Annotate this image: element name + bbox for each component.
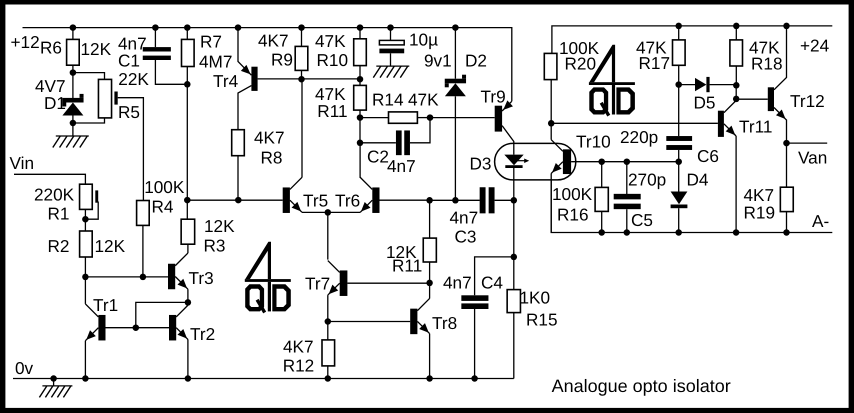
node C6/D4/Tr10 base junction bbox=[675, 158, 682, 165]
wire Tr8 base wire bbox=[328, 321, 410, 323]
label R1 bbox=[48, 203, 70, 223]
diode D2 zener 9v1 bbox=[445, 75, 466, 201]
svg-text:R7: R7 bbox=[200, 32, 222, 52]
svg-text:100K: 100K bbox=[552, 184, 593, 204]
label D1 bbox=[44, 93, 66, 113]
label Tr4 bbox=[213, 71, 239, 91]
label Tr3 bbox=[189, 268, 214, 288]
wire 10u bottom lead bbox=[390, 53, 392, 66]
label 4M7 value of R7 bbox=[199, 52, 232, 72]
node Tr4 base/R9/Tr5 collector junction bbox=[298, 76, 305, 83]
wire Vin terminal bbox=[14, 174, 85, 184]
wire C5 bottom lead bbox=[626, 209, 628, 232]
svg-text:4K7: 4K7 bbox=[283, 336, 314, 356]
label D4 bbox=[687, 170, 709, 190]
node Tr11 collector/Tr12 base junction bbox=[733, 96, 740, 103]
ground below 0v bus bbox=[39, 386, 72, 398]
node junction on +24 bus bbox=[733, 23, 740, 30]
svg-text:C3: C3 bbox=[455, 227, 477, 247]
svg-text:Tr11: Tr11 bbox=[739, 117, 772, 137]
label 4n7 value of C3 bbox=[450, 208, 479, 228]
label 0v terminal bbox=[15, 358, 34, 378]
resistor R16 bbox=[595, 187, 608, 211]
capacitor C6 220p bbox=[666, 136, 692, 150]
wire +12 supply bus bbox=[23, 28, 512, 102]
label R6 bbox=[40, 38, 62, 58]
wire C4 branch bbox=[475, 200, 514, 295]
label R3 bbox=[204, 236, 226, 256]
capacitor 10u electrolytic bbox=[379, 40, 404, 53]
wire base link to Tr2 collector bbox=[136, 302, 188, 327]
wire Tr1-Tr2 base link bbox=[106, 327, 170, 329]
label 220p value of C6 bbox=[620, 127, 658, 147]
svg-text:C5: C5 bbox=[631, 210, 653, 230]
svg-text:4n7: 4n7 bbox=[387, 156, 416, 176]
svg-text:R12: R12 bbox=[283, 356, 315, 376]
node junction on A- bus bbox=[598, 229, 605, 236]
label R17 bbox=[639, 53, 671, 73]
label R4 bbox=[152, 197, 174, 217]
svg-text:R18: R18 bbox=[751, 54, 783, 74]
capacitor C4 4n7 bbox=[461, 295, 488, 309]
wire R4 bottom lead bbox=[142, 225, 144, 277]
wire D2 cathode lead bbox=[454, 28, 456, 79]
label 12K value of R2 bbox=[95, 236, 126, 256]
svg-text:R9: R9 bbox=[271, 50, 293, 70]
wire R18 bottom lead bbox=[735, 66, 737, 85]
wire D1 anode to ground bbox=[72, 123, 74, 136]
label Tr11 bbox=[739, 117, 772, 137]
wire R9 top lead bbox=[301, 28, 303, 47]
svg-text:R5: R5 bbox=[118, 102, 140, 122]
wire R14 to Tr9 base node bbox=[417, 117, 430, 119]
label Vin terminal bbox=[10, 153, 35, 173]
svg-text:R3: R3 bbox=[204, 236, 226, 256]
label 47K value of R10 bbox=[315, 31, 346, 51]
label Tr10 bbox=[576, 132, 611, 152]
node junction on +12 bus bbox=[357, 24, 364, 31]
wire Tr7 base wire bbox=[347, 282, 429, 284]
node junction on 0v bus bbox=[325, 375, 332, 382]
svg-text:D2: D2 bbox=[465, 51, 487, 71]
node junction on A- bus bbox=[733, 229, 740, 236]
node junction on +12 bus bbox=[452, 24, 459, 31]
label 4V7 value of D1 bbox=[35, 76, 66, 96]
svg-text:Tr6: Tr6 bbox=[335, 191, 360, 211]
transistor Tr4 PNP bbox=[238, 65, 258, 130]
svg-text:4K7: 4K7 bbox=[258, 31, 289, 51]
wire C5 top lead bbox=[626, 162, 628, 194]
label 9v1 value bbox=[424, 51, 452, 71]
svg-text:C6: C6 bbox=[697, 146, 719, 166]
label Tr6 bbox=[335, 191, 360, 211]
node R8/Tr5 base junction bbox=[235, 197, 242, 204]
node junction on 0v bus bbox=[185, 375, 192, 382]
node Tr6 base/R11 junction bbox=[426, 197, 433, 204]
svg-text:0v: 0v bbox=[15, 358, 34, 378]
node junction on +24 bus bbox=[675, 23, 682, 30]
node junction on A- bus bbox=[675, 229, 682, 236]
wire R18 top lead bbox=[735, 26, 737, 40]
label R12 bbox=[283, 356, 315, 376]
svg-text:Tr2: Tr2 bbox=[190, 324, 215, 344]
transistor Tr1 NPN bbox=[85, 304, 105, 379]
svg-text:Tr1: Tr1 bbox=[93, 295, 118, 315]
wire C2 left lead bbox=[360, 118, 396, 143]
svg-text:100K: 100K bbox=[144, 177, 185, 197]
label R16 bbox=[557, 205, 589, 225]
wire R12 top lead bbox=[327, 322, 329, 340]
label 4n7 value of C2 bbox=[387, 156, 416, 176]
logo 4QD left bbox=[245, 242, 291, 313]
svg-text:Tr8: Tr8 bbox=[432, 313, 457, 333]
label 22K value of R5 bbox=[118, 69, 149, 89]
label C1 bbox=[118, 51, 140, 71]
wire R17 node down to C6 bbox=[678, 85, 680, 136]
label 4K7 value of R12 bbox=[283, 336, 314, 356]
svg-text:Tr3: Tr3 bbox=[189, 268, 214, 288]
svg-text:220p: 220p bbox=[620, 127, 658, 147]
capacitor C5 270p bbox=[614, 194, 641, 209]
wire D5 anode lead bbox=[679, 84, 695, 86]
label 1K0 value of R15 bbox=[520, 287, 551, 307]
label Tr8 bbox=[432, 313, 457, 333]
wire R16 top lead bbox=[601, 162, 603, 188]
wire R11 node to R14 bbox=[360, 117, 389, 119]
label 100K value of R16 bbox=[552, 184, 593, 204]
wire +24 supply bus bbox=[552, 26, 832, 54]
wire 10u top lead bbox=[390, 28, 392, 41]
label R2 bbox=[48, 236, 70, 256]
svg-text:R10: R10 bbox=[317, 50, 349, 70]
capacitor C2 4n7 bbox=[396, 130, 410, 155]
wire Tr4 base to R9/R10 bbox=[258, 78, 360, 80]
label 47K value of R11 bbox=[315, 84, 346, 104]
wire R15 top lead bbox=[513, 257, 515, 290]
node Tr7 emitter/R12 junction bbox=[325, 318, 332, 325]
transistor Tr6 NPN mirrored bbox=[328, 143, 380, 213]
svg-text:C4: C4 bbox=[481, 272, 503, 292]
svg-text:R1: R1 bbox=[48, 203, 70, 223]
svg-text:R14: R14 bbox=[372, 90, 404, 110]
resistor R11 lower 12K bbox=[423, 238, 436, 262]
label C4 bbox=[481, 272, 503, 292]
svg-text:R20: R20 bbox=[565, 54, 597, 74]
label D2 bbox=[465, 51, 487, 71]
wire R8 bottom lead bbox=[237, 156, 239, 201]
label 4K7 value of R9 bbox=[258, 31, 289, 51]
node R4 bottom junction bbox=[140, 274, 147, 281]
node junction on 0v bus bbox=[471, 375, 478, 382]
label 100K value of R4 bbox=[144, 177, 185, 197]
label C2 bbox=[367, 147, 389, 167]
svg-text:+12: +12 bbox=[11, 32, 40, 52]
label 47K value of R18 bbox=[749, 37, 780, 57]
label 270p value of C5 bbox=[628, 170, 666, 190]
label R5 bbox=[118, 102, 140, 122]
node R14/C2/Tr9 base junction bbox=[427, 114, 434, 121]
wire R10 top lead bbox=[359, 28, 361, 39]
phototransistor Tr10 inside opto bbox=[551, 123, 571, 232]
svg-text:10µ: 10µ bbox=[409, 30, 438, 50]
label R11 upper bbox=[317, 101, 347, 121]
label 12K value of R3 bbox=[204, 216, 235, 236]
wire R6 bottom lead bbox=[72, 65, 74, 72]
node Tr2 collector/Tr3 emitter junction bbox=[185, 299, 192, 306]
label 4n7 value of C1 bbox=[118, 34, 147, 54]
label R18 bbox=[751, 54, 783, 74]
wire R11 lower bottom lead bbox=[429, 262, 431, 283]
wire base rail to Tr3 bbox=[85, 276, 168, 278]
wire C4 bottom lead bbox=[474, 309, 476, 379]
wire R10 bottom lead bbox=[359, 66, 361, 86]
transistor Tr7 NPN mirrored bbox=[328, 212, 348, 321]
wire C3 to LED node bbox=[495, 199, 514, 201]
label R7 bbox=[200, 32, 222, 52]
wire R11 lower top lead bbox=[429, 200, 431, 238]
node junction on +12 bus bbox=[184, 24, 191, 31]
resistor R2 bbox=[80, 231, 93, 257]
wire C1 bottom to node bbox=[155, 60, 187, 84]
node R11/R14/C2 junction bbox=[357, 114, 364, 121]
svg-text:Analogue opto isolator: Analogue opto isolator bbox=[552, 376, 731, 396]
node junction on 0v bus bbox=[426, 375, 433, 382]
wire C1 top lead bbox=[154, 28, 156, 47]
label Tr9 bbox=[481, 87, 506, 107]
svg-text:C1: C1 bbox=[118, 51, 140, 71]
svg-text:C2: C2 bbox=[367, 147, 389, 167]
resistor R3 bbox=[181, 219, 195, 244]
diode D1 zener 4V7 bbox=[62, 73, 83, 123]
node R11/Tr7 base/Tr8 collector junction bbox=[426, 280, 433, 287]
node D1 anode junction bbox=[70, 120, 77, 127]
wire R2 bottom lead bbox=[84, 257, 86, 277]
label R10 bbox=[317, 50, 349, 70]
resistor R11 47K bbox=[354, 85, 367, 110]
label R8 bbox=[261, 148, 283, 168]
label D5 bbox=[694, 92, 716, 112]
wire C2 right lead bbox=[410, 118, 430, 143]
wire R7 node down to lower node bbox=[186, 84, 188, 200]
resistor R9 bbox=[295, 46, 308, 70]
potentiometer R1 220K bbox=[80, 184, 99, 209]
wire R17 top lead bbox=[678, 26, 680, 40]
resistor R8 bbox=[232, 130, 245, 156]
diode D4 bbox=[671, 192, 688, 209]
wire R6 top lead bbox=[72, 28, 74, 40]
transistor Tr12 NPN bbox=[768, 26, 787, 143]
svg-text:R2: R2 bbox=[48, 236, 70, 256]
wire Tr12 base wire bbox=[736, 98, 768, 100]
label Tr7 bbox=[305, 274, 330, 294]
node R1/R2 junction bbox=[82, 216, 89, 223]
svg-text:R4: R4 bbox=[152, 197, 174, 217]
wire Van terminal bbox=[787, 142, 828, 144]
capacitor C3 4n7 bbox=[480, 187, 495, 213]
resistor R20 bbox=[544, 53, 557, 79]
diode D5 bbox=[695, 77, 710, 92]
label 47K value of R17 bbox=[636, 37, 667, 57]
node junction on A- bus bbox=[624, 229, 631, 236]
label 47K value of R14 bbox=[408, 90, 439, 110]
opto isolator package outline bbox=[495, 143, 576, 180]
svg-text:R11: R11 bbox=[317, 101, 347, 121]
node Tr12 emitter/Van junction bbox=[783, 140, 790, 147]
resistor R17 bbox=[673, 40, 686, 65]
wire A- bus bbox=[551, 180, 832, 233]
node junction on 0v bus bbox=[82, 375, 89, 382]
transistor Tr8 NPN bbox=[410, 298, 429, 378]
wire 0v bus bbox=[13, 378, 514, 380]
svg-text:47K: 47K bbox=[315, 31, 346, 51]
node junction on +12 bus bbox=[387, 24, 394, 31]
wire C6 bottom lead bbox=[678, 150, 680, 162]
capacitor C1 4n7 bbox=[143, 47, 171, 60]
wire R7 top lead bbox=[186, 28, 188, 40]
label R11 lower bbox=[392, 256, 422, 276]
transistor Tr3 NPN bbox=[168, 253, 188, 302]
svg-text:R8: R8 bbox=[261, 148, 283, 168]
resistor R12 bbox=[322, 340, 335, 366]
wire R19 bottom lead bbox=[786, 212, 788, 233]
svg-text:+24: +24 bbox=[800, 36, 830, 56]
label C5 bbox=[631, 210, 653, 230]
label C6 bbox=[697, 146, 719, 166]
label R19 bbox=[744, 203, 776, 223]
label R20 bbox=[565, 54, 597, 74]
label Tr2 bbox=[190, 324, 215, 344]
svg-text:R16: R16 bbox=[557, 205, 589, 225]
transistor Tr9 PNP bbox=[495, 100, 514, 154]
wire Tr8 collector riser bbox=[429, 283, 431, 299]
wire Tr4 emitter from bus bbox=[238, 28, 251, 76]
resistor R7 bbox=[182, 39, 195, 66]
wire R12 bottom lead bbox=[327, 366, 329, 379]
caption Analogue opto isolator bbox=[552, 376, 731, 396]
wire R7 bottom lead bbox=[186, 67, 188, 85]
svg-text:D3: D3 bbox=[470, 154, 492, 174]
svg-text:12K: 12K bbox=[204, 216, 235, 236]
node junction on +12 bus bbox=[70, 24, 77, 31]
node junction on A- bus bbox=[783, 229, 790, 236]
transistor Tr11 NPN bbox=[718, 99, 736, 233]
label 4K7 value of R19 bbox=[744, 185, 775, 205]
wire R16 bottom lead bbox=[601, 211, 603, 232]
node C5 top junction bbox=[624, 158, 631, 165]
label +24 terminal bbox=[800, 36, 830, 56]
node Tr10 base/R16 junction bbox=[598, 158, 605, 165]
label Van terminal bbox=[798, 147, 827, 167]
label D3 bbox=[470, 154, 492, 174]
LED D3 inside opto bbox=[504, 155, 529, 201]
label A- terminal bbox=[812, 211, 829, 231]
wire D4 anode lead bbox=[678, 162, 680, 192]
label 10u value bbox=[409, 30, 438, 50]
label Tr12 bbox=[790, 91, 825, 111]
resistor R18 bbox=[730, 40, 743, 66]
node R7 riser/Tr5 base rail junction bbox=[184, 197, 191, 204]
label 12K value of R6 bbox=[81, 39, 112, 59]
svg-text:D5: D5 bbox=[694, 92, 716, 112]
node R20/Tr10 collector junction bbox=[548, 120, 555, 127]
node C4 branch junction bbox=[511, 254, 518, 261]
node base link junction bbox=[133, 324, 140, 331]
label 4K7 value of R8 bbox=[254, 128, 285, 148]
svg-text:47K: 47K bbox=[408, 90, 439, 110]
svg-text:R15: R15 bbox=[526, 310, 558, 330]
node junction on +12 bus bbox=[235, 24, 242, 31]
node junction on 0v bus bbox=[50, 375, 57, 382]
label 12K value of lower R11 bbox=[386, 242, 417, 262]
wire R20 node to Tr11 base bbox=[551, 122, 718, 124]
label 100K value of R20 bbox=[559, 38, 600, 58]
svg-text:220K: 220K bbox=[34, 185, 75, 205]
svg-text:4M7: 4M7 bbox=[199, 52, 232, 72]
svg-text:D1: D1 bbox=[44, 93, 66, 113]
node R10/R11 junction bbox=[357, 76, 364, 83]
label R15 bbox=[526, 310, 558, 330]
svg-text:R19: R19 bbox=[744, 203, 776, 223]
node R2/R4/Tr1 collector junction bbox=[82, 274, 89, 281]
svg-text:22K: 22K bbox=[118, 69, 149, 89]
resistor R10 bbox=[354, 39, 367, 66]
svg-text:Tr5: Tr5 bbox=[303, 191, 328, 211]
wire R17 bottom lead bbox=[678, 65, 680, 84]
transistor Tr2 NPN bbox=[169, 302, 188, 378]
wire node to D2 anode bbox=[430, 199, 480, 201]
node Tr5/Tr6 emitter junction bbox=[325, 209, 332, 216]
wire R5 wiper to R4 bbox=[118, 98, 144, 201]
wire D1 anode to R5 bottom bbox=[73, 118, 105, 123]
svg-text:Van: Van bbox=[798, 147, 827, 167]
label Tr5 bbox=[303, 191, 328, 211]
svg-text:D4: D4 bbox=[687, 170, 709, 190]
wire Tr10 base lead out bbox=[571, 161, 679, 163]
wire R9 bottom lead bbox=[301, 70, 303, 79]
resistor R6 bbox=[67, 39, 80, 65]
resistor R15 1K0 bbox=[507, 290, 520, 313]
label R9 bbox=[271, 50, 293, 70]
wire D5 cathode lead bbox=[710, 84, 737, 86]
node junction on +24 bus bbox=[783, 23, 790, 30]
svg-text:Tr4: Tr4 bbox=[213, 71, 239, 91]
svg-text:R11: R11 bbox=[392, 256, 422, 276]
resistor R19 bbox=[780, 187, 793, 211]
svg-text:Tr7: Tr7 bbox=[305, 274, 330, 294]
svg-text:R17: R17 bbox=[639, 53, 671, 73]
label 4n7 value of C4 bbox=[443, 272, 472, 292]
node LED cathode/R15 junction bbox=[511, 197, 518, 204]
wire R1 wiper link bbox=[85, 202, 98, 220]
node junction on +12 bus bbox=[298, 24, 305, 31]
wire ground stem bbox=[53, 379, 55, 386]
svg-text:12K: 12K bbox=[95, 236, 126, 256]
logo 4QD right bbox=[589, 45, 635, 116]
node R6/D1/R5 junction bbox=[70, 69, 77, 76]
label Tr1 bbox=[93, 295, 118, 315]
node R17/D5/C6 junction bbox=[675, 81, 682, 88]
svg-text:Tr10: Tr10 bbox=[576, 132, 611, 152]
ground below D1 bbox=[53, 136, 89, 148]
wire R11 bottom lead bbox=[359, 110, 361, 118]
wire Tr6 base wire bbox=[380, 199, 430, 201]
label 220K value of R1 bbox=[34, 185, 75, 205]
svg-text:12K: 12K bbox=[81, 39, 112, 59]
wire R19 top lead bbox=[786, 143, 788, 187]
svg-text:Tr9: Tr9 bbox=[481, 87, 506, 107]
svg-text:1K0: 1K0 bbox=[520, 287, 551, 307]
svg-text:270p: 270p bbox=[628, 170, 666, 190]
